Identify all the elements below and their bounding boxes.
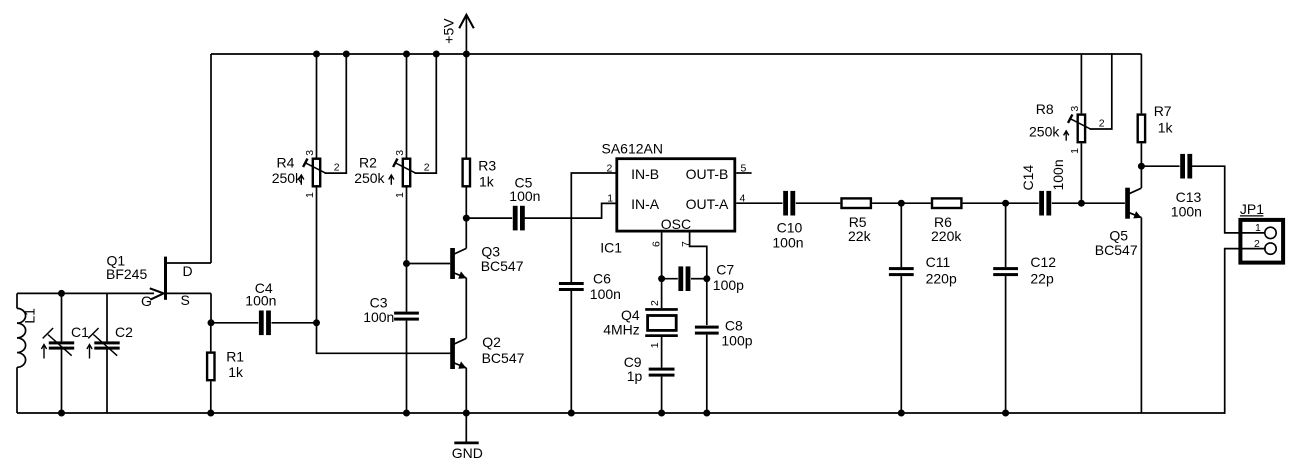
wire C9 bottom lead — [661, 377, 663, 413]
R4 wiper arrow — [305, 163, 325, 173]
wire L1 bottom lead — [16, 367, 18, 413]
wire IC1 pin 4 OUT-A to C10 — [736, 202, 782, 204]
C1 adjustment arrow — [43, 346, 45, 359]
wire R7 top lead — [1140, 54, 1142, 113]
svg-text:C8: C8 — [725, 318, 743, 334]
capacitor C14 — [1039, 191, 1044, 216]
Q3 collector lead — [454, 248, 466, 254]
svg-text:2: 2 — [334, 162, 340, 174]
Q2 emitter arrowhead — [458, 361, 468, 371]
svg-text:C10: C10 — [777, 220, 803, 236]
svg-text:1: 1 — [649, 342, 661, 348]
wire C3 bottom lead — [406, 321, 408, 413]
wire IC1 pin 2 IN-B to C6 — [571, 173, 615, 282]
wire C11 top lead — [900, 203, 902, 267]
junction +5V rail / R2 wiper — [433, 51, 440, 58]
junction bottom rail / R1 — [207, 410, 214, 417]
capacitor C5 — [513, 206, 518, 231]
svg-text:R1: R1 — [226, 348, 244, 364]
wire Q1 source down to R1/C4 node — [210, 293, 212, 322]
svg-text:3: 3 — [304, 150, 316, 156]
op-amp/mixer IC1 SA612AN body — [617, 159, 735, 231]
svg-text:C14: C14 — [1020, 165, 1036, 191]
wire R4 pin2 to +5V rail — [326, 54, 347, 173]
trimmer potentiometer R8 body — [1078, 115, 1085, 143]
wire pin6 node to C7 — [662, 278, 678, 280]
wire Q4 to C9 — [661, 337, 663, 368]
resistor R6 — [932, 198, 961, 208]
svg-text:250k: 250k — [354, 170, 385, 186]
svg-text:1k: 1k — [1158, 119, 1174, 135]
JP1 pin 2 circle — [1265, 243, 1276, 254]
wire R7 node down to Q5 collector — [1140, 166, 1142, 188]
svg-text:BC547: BC547 — [481, 258, 524, 274]
svg-text:220k: 220k — [931, 228, 962, 244]
svg-text:100n: 100n — [509, 188, 540, 204]
wire R7 node to C13 — [1141, 165, 1179, 167]
wire tank top wire into Q1 gate — [17, 292, 154, 294]
wire C13 to JP1 pin 1 — [1193, 166, 1265, 233]
wire R4 node to Q2 base — [317, 323, 451, 354]
svg-text:G: G — [141, 293, 152, 309]
wire R8 bottom lead — [1080, 143, 1082, 203]
svg-text:1: 1 — [1255, 222, 1261, 234]
junction +5V rail / R3 supply arrow — [463, 51, 470, 58]
junction bottom rail / C3 — [403, 410, 410, 417]
svg-text:100p: 100p — [721, 333, 752, 349]
wire Q5 emitter to ground rail — [1140, 218, 1142, 413]
JP1 designator underline — [1240, 215, 1264, 217]
trimmer potentiometer R4 body — [313, 159, 320, 187]
svg-text:OUT-A: OUT-A — [686, 196, 729, 212]
wire C1 bottom lead — [61, 349, 63, 413]
Q3 emitter arrowhead — [458, 271, 468, 281]
svg-text:OUT-B: OUT-B — [686, 166, 729, 182]
junction R5 / R6 / C11 — [898, 200, 905, 207]
svg-text:IC1: IC1 — [600, 240, 622, 256]
wire C1 top lead — [61, 293, 63, 341]
svg-text:IN-A: IN-A — [631, 196, 660, 212]
svg-text:100p: 100p — [713, 277, 744, 293]
capacitor C6 — [559, 282, 584, 285]
R8 wiper arrow — [1070, 119, 1090, 129]
wire IC1 pin 7 jog — [690, 233, 707, 279]
capacitor C7 — [678, 266, 683, 291]
svg-text:2: 2 — [424, 162, 430, 174]
svg-text:2: 2 — [1099, 118, 1105, 130]
wire rail down to Q1 drain — [210, 54, 212, 263]
capacitor C12 — [993, 267, 1018, 270]
wire C10 to R5 — [796, 202, 841, 204]
wire L1 top lead — [16, 293, 18, 308]
wire C11 bottom lead — [900, 276, 902, 413]
transistor Q5 base bar — [1125, 188, 1130, 219]
wire R5 to C11 node — [872, 202, 901, 204]
wire R2 bottom to Q3 base node — [406, 188, 408, 264]
svg-text:BC547: BC547 — [1095, 242, 1138, 258]
wire R7 bottom lead — [1140, 143, 1142, 166]
wire Q3 base — [407, 263, 451, 265]
wire C7 to pin7 node — [691, 278, 707, 280]
junction bottom rail / C11 — [898, 410, 905, 417]
junction Q1 source / R1 / C4 — [208, 319, 215, 326]
wire C4 to R4 bottom node — [272, 322, 317, 324]
wire C12 top lead — [1005, 203, 1007, 267]
Q1 drain lead — [167, 262, 211, 264]
junction +5V rail / R4 — [313, 51, 320, 58]
svg-text:D: D — [183, 263, 193, 279]
wire IC1 pin 6 down — [661, 233, 663, 279]
junction pin7 / C7 / C8 — [703, 275, 710, 282]
svg-text:6: 6 — [650, 241, 662, 247]
capacitor C11 — [889, 267, 914, 270]
svg-text:100n: 100n — [363, 309, 394, 325]
wire C5 to IC1 pin 1 IN-A — [525, 203, 615, 218]
svg-text:100n: 100n — [245, 293, 276, 309]
wire IC1 pin 5 OUT-B stub — [736, 172, 751, 174]
svg-text:2: 2 — [649, 300, 661, 306]
wire R3 node to C5 — [466, 217, 512, 219]
svg-text:R2: R2 — [359, 154, 377, 170]
junction R6 / C12 / C14 — [1002, 200, 1009, 207]
svg-text:C6: C6 — [593, 270, 611, 286]
wire Q3 emitter to Q2 collector — [465, 278, 467, 339]
capacitor C4 — [259, 311, 264, 336]
wire C12 bottom lead — [1005, 276, 1007, 413]
svg-text:Q3: Q3 — [481, 244, 500, 260]
wire R1 bottom lead — [210, 381, 212, 413]
JP1 pin 1 circle — [1265, 227, 1276, 238]
wire JP1 pin 2 to ground rail — [1225, 249, 1265, 413]
svg-text:1k: 1k — [228, 364, 244, 380]
R2 adjustment arrow — [390, 176, 392, 185]
wire C2 top lead — [106, 293, 108, 341]
Q2 collector lead — [454, 338, 466, 344]
wire C8 bottom lead — [706, 335, 708, 413]
capacitor C10 — [783, 191, 788, 216]
JP1 pin 1 lead — [1240, 232, 1265, 234]
svg-text:R4: R4 — [277, 154, 295, 170]
wire C6 bottom lead — [570, 291, 572, 413]
svg-text:BF245: BF245 — [106, 266, 147, 282]
svg-text:1: 1 — [394, 192, 406, 198]
inductor L1 coil — [17, 308, 26, 367]
wire R4 bottom to C4 node — [316, 188, 318, 323]
wire C2 bottom lead — [106, 349, 108, 413]
wire R1 top lead — [210, 323, 212, 352]
wire Q1 source node to C4 — [211, 322, 258, 324]
Q5 emitter arrowhead — [1133, 211, 1143, 221]
transistor Q2 base bar — [450, 338, 455, 369]
wire R4 top lead — [316, 54, 318, 158]
junction +5V rail / R4 wiper — [343, 51, 350, 58]
svg-text:1: 1 — [1069, 148, 1081, 154]
wire R2 top lead — [406, 54, 408, 158]
svg-text:100n: 100n — [1171, 203, 1202, 219]
trimmer potentiometer R2 body — [403, 159, 410, 187]
junction bottom rail / C9 — [658, 410, 665, 417]
resistor R1 — [207, 353, 214, 381]
svg-text:1: 1 — [607, 192, 613, 204]
wire C12 node to C14 — [1006, 202, 1039, 204]
Q1 source lead — [167, 292, 211, 294]
resistor R7 — [1138, 115, 1145, 143]
svg-text:1p: 1p — [627, 368, 643, 384]
svg-text:100n: 100n — [590, 286, 621, 302]
variable capacitor C1 plates — [49, 341, 74, 344]
svg-text:OSC: OSC — [661, 216, 691, 232]
crystal Q4 body — [648, 316, 677, 331]
svg-text:4MHz: 4MHz — [603, 321, 640, 337]
svg-text:100n: 100n — [772, 235, 803, 251]
svg-text:3: 3 — [394, 150, 406, 156]
wire pin6 node to Q4 — [661, 279, 663, 308]
wire R2 node down to C3 — [406, 264, 408, 312]
junction C14 / R8 / Q5 base — [1078, 200, 1085, 207]
Q2 emitter lead — [454, 363, 466, 368]
svg-text:SA612AN: SA612AN — [602, 141, 663, 157]
svg-text:C11: C11 — [926, 254, 951, 270]
svg-text:C7: C7 — [716, 262, 734, 278]
junction +5V rail / R2 — [403, 51, 410, 58]
svg-text:22k: 22k — [848, 228, 872, 244]
svg-text:C12: C12 — [1030, 254, 1056, 270]
svg-text:C3: C3 — [370, 294, 388, 310]
capacitor C13 — [1180, 154, 1185, 179]
svg-text:GND: GND — [452, 445, 483, 461]
svg-text:L1: L1 — [22, 308, 38, 324]
junction C4 / R4 wire — [313, 319, 320, 326]
svg-text:Q2: Q2 — [482, 334, 501, 350]
wire R6 to C12 node — [963, 202, 1006, 204]
svg-text:100n: 100n — [1050, 159, 1066, 190]
variable capacitor C2 plates — [94, 341, 119, 344]
crystal Q4 bottom plate — [645, 334, 678, 337]
junction bottom rail / C6 — [568, 410, 575, 417]
C2 adjustment arrow — [89, 346, 91, 359]
R2 wiper arrow — [395, 163, 415, 173]
wire Q2 emitter to ground rail — [465, 368, 467, 413]
R8 adjustment arrow — [1065, 132, 1067, 141]
wire R8 top lead — [1080, 54, 1082, 113]
junction R2 / Q3 base — [403, 260, 410, 267]
wire C11 node to R6 — [901, 202, 931, 204]
wire R3 top lead — [465, 54, 467, 158]
svg-text:250k: 250k — [1029, 123, 1060, 139]
junction R3 / C5 / Q3 collector — [463, 215, 470, 222]
transistor Q3 base bar — [450, 248, 455, 279]
svg-text:220p: 220p — [926, 270, 957, 286]
svg-text:R3: R3 — [478, 158, 496, 174]
Q5 emitter lead — [1129, 213, 1141, 218]
svg-text:S: S — [181, 292, 190, 308]
wire C14 to R8 node — [1052, 202, 1082, 204]
junction R7 / C13 / Q5 collector — [1138, 163, 1145, 170]
junction bottom rail / C12 — [1002, 410, 1009, 417]
svg-text:+5V: +5V — [441, 18, 457, 44]
wire R8 pin2 to +5V rail — [1090, 54, 1111, 129]
junction bottom rail / Q2 emitter/GND — [463, 410, 470, 417]
R4 adjustment arrow — [300, 176, 302, 185]
capacitor C8 — [695, 326, 719, 329]
resistor R3 — [463, 159, 470, 187]
C2 trimmer diagonal — [93, 335, 117, 356]
junction bottom rail / C1 — [58, 410, 65, 417]
resistor R5 — [842, 198, 871, 208]
wire +5V top rail — [211, 53, 1141, 55]
svg-text:1k: 1k — [479, 174, 495, 190]
svg-text:R8: R8 — [1036, 101, 1054, 117]
wire ground bottom rail — [17, 412, 1225, 414]
svg-text:R7: R7 — [1154, 103, 1172, 119]
C1 trimmer diagonal — [48, 335, 72, 356]
capacitor C3 — [394, 312, 419, 315]
svg-text:Q4: Q4 — [621, 307, 640, 323]
Q3 emitter lead — [454, 273, 466, 278]
svg-text:C2: C2 — [115, 324, 133, 340]
junction pin6 / C7 / Q4 — [658, 275, 665, 282]
svg-text:1: 1 — [304, 192, 316, 198]
ground GND symbol — [465, 413, 467, 442]
svg-text:250k: 250k — [272, 170, 303, 186]
wire R2 pin2 to +5V rail — [416, 54, 437, 173]
svg-text:C1: C1 — [71, 324, 89, 340]
+5V supply symbol — [465, 15, 467, 54]
Q5 collector lead — [1129, 188, 1141, 194]
svg-text:3: 3 — [1069, 106, 1081, 112]
wire R8 node to Q5 base — [1081, 202, 1125, 204]
wire pin7 node to C8 — [706, 279, 708, 325]
transistor Q1 BF245 JFET channel bar — [164, 257, 167, 300]
junction tank top / C1 — [58, 290, 65, 297]
Q1 gate arrowhead — [150, 288, 164, 299]
svg-text:22p: 22p — [1030, 270, 1054, 286]
svg-text:IN-B: IN-B — [631, 166, 659, 182]
svg-text:JP1: JP1 — [1240, 201, 1264, 217]
wire R3 node down to Q3 collector — [465, 218, 467, 248]
junction bottom rail / C8 — [703, 410, 710, 417]
crystal Q4 top plate — [645, 308, 678, 311]
svg-text:BC547: BC547 — [482, 350, 525, 366]
capacitor C9 — [649, 368, 675, 371]
connector JP1 body — [1240, 220, 1283, 263]
wire R3 bottom lead — [465, 188, 467, 219]
